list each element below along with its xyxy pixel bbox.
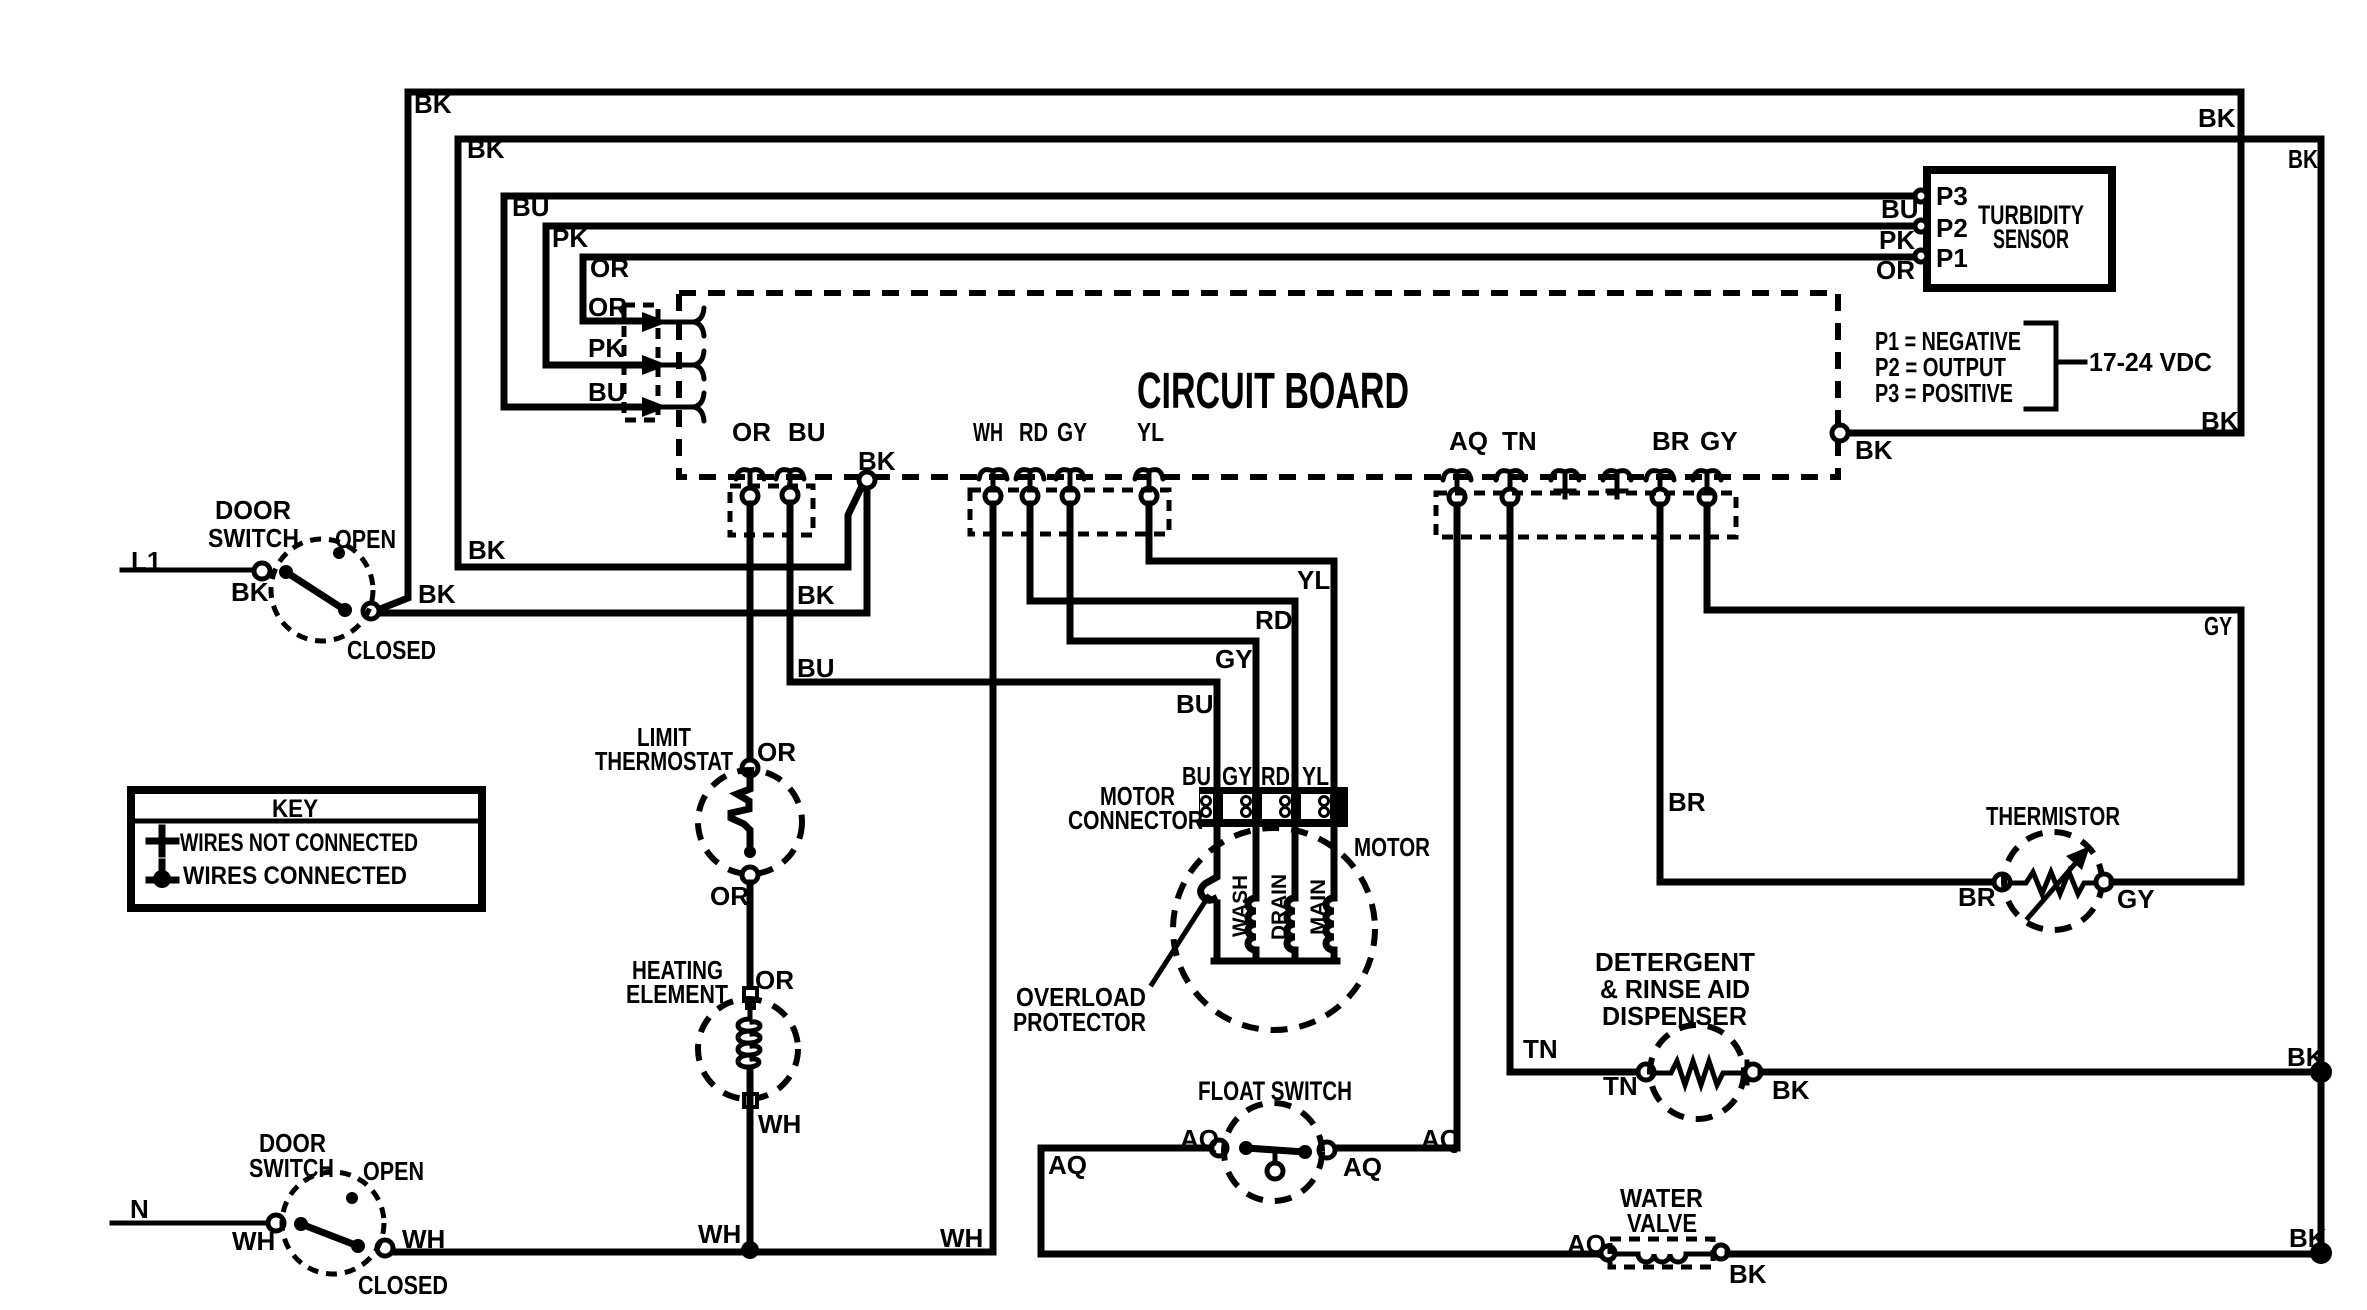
connector pin BU (left, triangle and fork)	[642, 393, 704, 421]
door switch upper: terminal circle left	[254, 563, 270, 579]
svg-text:& RINSE AID: & RINSE AID	[1600, 974, 1750, 1004]
pin P1 terminal circle	[1915, 250, 1927, 262]
unused pin 1 (board bottom)	[1551, 471, 1579, 497]
turbidity sensor box U1	[1927, 170, 2112, 288]
legend bracket	[2026, 323, 2056, 409]
svg-text:PK: PK	[1879, 225, 1915, 255]
svg-text:WH: WH	[973, 417, 1003, 447]
svg-text:PK: PK	[552, 223, 588, 253]
svg-text:THERMISTOR: THERMISTOR	[1986, 801, 2120, 831]
heating element top terminal square	[744, 988, 757, 1001]
svg-text:DRAIN: DRAIN	[1268, 874, 1291, 940]
float ball stem	[1273, 1152, 1278, 1163]
svg-text:WH: WH	[940, 1223, 983, 1253]
svg-text:OR: OR	[732, 417, 771, 447]
dispenser dashed circle	[1650, 1025, 1744, 1119]
dispenser left terminal	[1638, 1064, 1654, 1080]
wire AQ float switch to bottom bus	[1041, 1148, 1211, 1251]
svg-text:CIRCUIT BOARD: CIRCUIT BOARD	[1137, 362, 1409, 419]
connector pin PK (left, triangle and fork)	[642, 351, 704, 379]
svg-text:P2: P2	[1936, 213, 1968, 243]
svg-text:YL: YL	[1137, 417, 1164, 447]
heating element coil	[738, 1010, 760, 1095]
wire BU from pin to motor connector	[790, 503, 1217, 787]
svg-text:DETERGENT: DETERGENT	[1595, 947, 1755, 977]
svg-text:BU: BU	[797, 653, 835, 683]
water valve coil	[1615, 1254, 1709, 1262]
door switch lower: dashed circle	[282, 1172, 384, 1274]
connector pin OR (left, triangle and fork)	[642, 308, 704, 336]
svg-text:WIRES CONNECTED: WIRES CONNECTED	[183, 862, 407, 890]
door switch upper: open position dot	[333, 547, 345, 559]
svg-text:BK: BK	[467, 134, 505, 164]
svg-text:PK: PK	[588, 333, 624, 363]
svg-text:OR: OR	[710, 881, 749, 911]
wire L1 feeder	[122, 568, 254, 573]
svg-text:WH: WH	[758, 1109, 801, 1139]
limit thermostat junction dot	[744, 846, 756, 858]
wire PK turbidity loop	[546, 226, 1914, 365]
door switch lower: closed contact dot	[351, 1239, 365, 1253]
float switch dashed circle	[1224, 1103, 1322, 1201]
terminal circle AQ pin	[1449, 489, 1465, 505]
svg-text:YL: YL	[1302, 761, 1329, 791]
wire BR from pin down to thermistor	[1660, 505, 1994, 882]
pin OR (board bottom)	[736, 470, 764, 490]
svg-text:BK: BK	[1729, 1259, 1767, 1289]
svg-text:BR: BR	[1652, 426, 1690, 456]
wire WH heating element down to bottom bus	[747, 1072, 754, 1251]
svg-text:BR: BR	[1958, 882, 1996, 912]
thermistor right terminal	[2096, 874, 2112, 890]
svg-text:RD: RD	[1019, 417, 1048, 447]
wire GY thermistor to circuit board pin	[1707, 505, 2241, 882]
limit thermostat dashed circle	[698, 770, 802, 874]
svg-text:AQ: AQ	[1343, 1152, 1382, 1182]
pin P2 terminal circle	[1915, 220, 1927, 232]
pin GY (board bottom)	[1056, 470, 1084, 490]
svg-text:PROTECTOR: PROTECTOR	[1013, 1007, 1146, 1037]
water valve left terminal	[1601, 1246, 1615, 1260]
wire WH from pin down to bottom bus	[395, 504, 993, 1252]
terminal circle BU pin	[782, 487, 798, 503]
junction dot WH at bottom bus	[741, 1241, 759, 1259]
svg-text:WASH: WASH	[1229, 875, 1252, 937]
svg-text:P3 = POSITIVE: P3 = POSITIVE	[1875, 378, 2013, 408]
terminal circle WH pin	[985, 488, 1001, 504]
svg-text:OR: OR	[755, 965, 794, 995]
terminal circle TN pin	[1502, 489, 1518, 505]
wire RD from pin to motor connector	[1030, 504, 1295, 787]
thermistor arrow	[2028, 846, 2090, 918]
node BK pin of circuit board	[859, 472, 875, 488]
terminal circle YL pin	[1141, 488, 1157, 504]
svg-text:BK: BK	[1855, 435, 1893, 465]
svg-text:VALVE: VALVE	[1627, 1208, 1697, 1238]
svg-text:BK: BK	[2201, 406, 2239, 436]
circuit board dashed outline	[679, 293, 1838, 477]
svg-text:OPEN: OPEN	[363, 1156, 424, 1186]
wire N feeder	[112, 1221, 268, 1226]
svg-text:BR: BR	[1668, 787, 1706, 817]
pin P3 terminal circle	[1915, 190, 1927, 202]
door switch lower: open position dot	[346, 1192, 358, 1204]
svg-text:AQ: AQ	[1048, 1150, 1087, 1180]
svg-text:AQ: AQ	[1449, 426, 1488, 456]
heating element bottom terminal square	[744, 1094, 757, 1107]
wire TN from pin down to dispenser	[1510, 505, 1638, 1072]
wire BK dispenser to right bus	[1761, 1069, 2321, 1076]
svg-text:OR: OR	[1876, 255, 1915, 285]
svg-text:RD: RD	[1255, 605, 1293, 635]
wire BK outer loop (door switch to turbidity sensor BK terminal)	[375, 92, 2241, 611]
pin TN (board bottom)	[1496, 471, 1524, 491]
svg-text:GY: GY	[1215, 644, 1253, 674]
svg-text:OPEN: OPEN	[335, 524, 396, 554]
pin WH (board bottom)	[979, 470, 1007, 490]
svg-text:BK: BK	[2288, 144, 2318, 174]
pin AQ (board bottom)	[1443, 471, 1471, 491]
door switch lower: terminal circle right	[377, 1240, 393, 1256]
door switch upper: closed contact dot	[338, 603, 352, 617]
terminal circle RD pin	[1022, 488, 1038, 504]
thermistor left terminal	[1994, 874, 2010, 890]
door switch lower: blade	[301, 1224, 358, 1246]
svg-text:TN: TN	[1502, 426, 1537, 456]
terminal circle GY right pin	[1699, 489, 1715, 505]
junction dot dispenser to BK bus	[2310, 1061, 2332, 1083]
svg-text:GY: GY	[2117, 884, 2155, 914]
svg-text:BU: BU	[1881, 194, 1919, 224]
svg-text:TN: TN	[1603, 1071, 1638, 1101]
terminal circle OR pin	[742, 488, 758, 504]
svg-text:WIRES NOT CONNECTED: WIRES NOT CONNECTED	[180, 829, 418, 857]
svg-text:BU: BU	[1176, 689, 1214, 719]
svg-text:GY: GY	[1057, 417, 1087, 447]
wire OR from pin down to limit thermostat	[747, 504, 754, 761]
pin RD (board bottom)	[1016, 470, 1044, 490]
motor winding common bus	[1214, 958, 1337, 965]
svg-text:BK: BK	[418, 579, 456, 609]
motor connector box	[1199, 787, 1348, 827]
door switch upper: pivot dot	[279, 565, 293, 579]
wire GY from pin to motor connector	[1070, 504, 1256, 787]
motor dashed circle	[1173, 828, 1375, 1030]
motor winding DRAIN (RD leg with coil)	[1287, 825, 1295, 961]
svg-text:WH: WH	[698, 1219, 741, 1249]
svg-text:BU: BU	[512, 192, 550, 222]
float switch blade	[1246, 1148, 1305, 1152]
svg-text:SWITCH: SWITCH	[208, 523, 299, 553]
water valve right terminal	[1714, 1245, 1728, 1259]
svg-text:MOTOR: MOTOR	[1354, 832, 1430, 862]
svg-text:KEY: KEY	[272, 795, 318, 823]
float switch right terminal	[1319, 1142, 1335, 1158]
svg-text:SWITCH: SWITCH	[249, 1153, 334, 1183]
unused pin 2 (board bottom)	[1603, 471, 1631, 497]
wire BK second loop (BK pin to right side down to bottom bus)	[458, 139, 2321, 1254]
svg-text:DOOR: DOOR	[215, 495, 291, 525]
svg-text:OR: OR	[590, 253, 629, 283]
svg-text:AQ: AQ	[1421, 1124, 1460, 1154]
motor winding WASH (GY leg with coil)	[1248, 825, 1256, 961]
door switch upper: terminal circle right	[363, 603, 379, 619]
motor connector cell contacts	[1202, 797, 1329, 817]
svg-text:P1: P1	[1936, 243, 1968, 273]
pin BU (board bottom)	[776, 470, 804, 489]
svg-text:BU: BU	[588, 377, 626, 407]
door switch upper: blade	[286, 572, 345, 610]
heating element top tick	[745, 1001, 756, 1010]
terminal circle BK at circuit board right edge	[1832, 425, 1848, 441]
wire AQ from pin down to float switch	[1335, 505, 1457, 1148]
svg-text:SENSOR: SENSOR	[1993, 224, 2069, 254]
dispenser right terminal	[1745, 1064, 1761, 1080]
svg-text:P3: P3	[1936, 181, 1968, 211]
wire AQ bottom bus to water valve	[1041, 1251, 1600, 1258]
svg-text:BK: BK	[468, 535, 506, 565]
dispenser heater coil	[1652, 1061, 1747, 1085]
pin BR (board bottom)	[1646, 471, 1674, 491]
float switch left terminal	[1211, 1140, 1227, 1156]
svg-text:CONNECTOR: CONNECTOR	[1068, 805, 1203, 835]
svg-text:BK: BK	[231, 577, 269, 607]
heating element dashed circle	[698, 999, 798, 1099]
wire OR thermostat to heating element	[747, 883, 754, 988]
key symbol wires connected (tee with dot)	[149, 862, 176, 888]
svg-text:OR: OR	[588, 292, 627, 322]
svg-text:OR: OR	[757, 737, 796, 767]
limit thermostat bottom terminal	[742, 867, 758, 883]
svg-text:WH: WH	[232, 1226, 275, 1256]
door switch lower: pivot dot	[294, 1217, 308, 1231]
svg-text:DISPENSER: DISPENSER	[1602, 1001, 1747, 1031]
wire YL from pin to motor connector	[1149, 504, 1334, 787]
float ball	[1267, 1163, 1283, 1179]
dashed box around left connector pins	[624, 305, 658, 420]
svg-text:L1: L1	[131, 546, 161, 576]
KEY title separator	[135, 819, 478, 824]
dashed box around OR and BU pins	[730, 486, 813, 535]
svg-text:CLOSED: CLOSED	[347, 635, 436, 665]
svg-text:BK: BK	[414, 89, 452, 119]
svg-text:RD: RD	[1261, 761, 1290, 791]
door switch upper: dashed circle	[271, 539, 373, 641]
svg-text:BU: BU	[1182, 761, 1211, 791]
door switch lower: terminal circle left	[268, 1215, 284, 1231]
limit thermostat top terminal	[742, 760, 758, 776]
svg-text:BK: BK	[858, 446, 896, 476]
svg-text:BK: BK	[797, 580, 835, 610]
svg-text:GY: GY	[1222, 761, 1252, 791]
water valve dashed box	[1610, 1239, 1713, 1267]
float switch blade contact dot	[1298, 1145, 1312, 1159]
svg-text:GY: GY	[1700, 426, 1738, 456]
terminal circle GY pin	[1062, 488, 1078, 504]
float switch pivot dot	[1239, 1141, 1253, 1155]
pin GY right (board bottom)	[1693, 471, 1721, 491]
dashed box around AQ TN BR GY pins	[1436, 493, 1736, 537]
terminal circle BR pin	[1652, 489, 1668, 505]
svg-text:BU: BU	[788, 417, 826, 447]
motor winding MAIN (YL leg with coil)	[1326, 825, 1334, 961]
svg-text:MAIN: MAIN	[1307, 879, 1330, 935]
overload protector pointer line	[1152, 897, 1208, 984]
svg-text:BK: BK	[2198, 103, 2236, 133]
dashed box around WH RD GY YL pins	[970, 490, 1169, 534]
wire BU turbidity loop	[504, 196, 1914, 407]
svg-text:N: N	[130, 1194, 149, 1224]
junction dot bottom right	[2310, 1242, 2332, 1264]
wire BK from door switch along y=613 up to BK pin	[377, 487, 867, 613]
svg-text:WH: WH	[402, 1224, 445, 1254]
thermistor coil	[2010, 872, 2096, 894]
svg-text:17-24 VDC: 17-24 VDC	[2089, 347, 2212, 377]
svg-text:GY: GY	[2204, 611, 2232, 641]
svg-text:THERMOSTAT: THERMOSTAT	[595, 746, 733, 776]
thermistor dashed circle	[2004, 832, 2102, 930]
wire OR turbidity loop	[583, 257, 1914, 321]
key symbol wires not connected (cross)	[149, 828, 176, 854]
svg-text:BK: BK	[1772, 1075, 1810, 1105]
legend dash to 17-24 VDC	[2056, 360, 2085, 365]
svg-text:YL: YL	[1297, 565, 1330, 595]
wire BK water valve to right bus	[1728, 1251, 2321, 1258]
limit thermostat contact zigzag	[731, 776, 750, 845]
pin YL (board bottom)	[1135, 470, 1163, 490]
wire BU winding common with overload protector	[1201, 825, 1217, 958]
svg-text:TN: TN	[1523, 1034, 1558, 1064]
svg-text:CLOSED: CLOSED	[358, 1270, 448, 1300]
svg-text:ELEMENT: ELEMENT	[626, 979, 728, 1009]
KEY box	[131, 790, 482, 908]
